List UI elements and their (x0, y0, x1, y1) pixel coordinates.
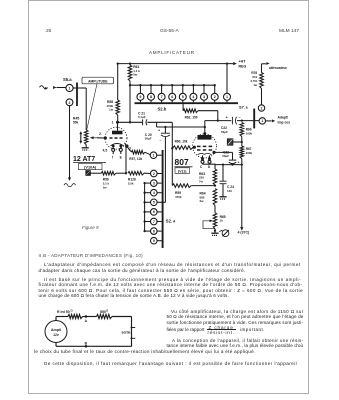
capacitor C22 (232, 117, 236, 125)
switch S5.a contact 1 (66, 84, 73, 91)
resistor R60 (173, 146, 196, 150)
right column line 4 with fraction (167, 327, 205, 332)
header ref (279, 29, 299, 34)
12AT7 grid pin 2 label (99, 132, 101, 136)
resistor R63 (213, 169, 217, 185)
R45 bottom lead (85, 145, 87, 148)
S7.a label (239, 105, 248, 110)
12AT7 plate (112, 121, 123, 135)
tube 807 envelope (193, 134, 217, 158)
potentiometer R65 (213, 213, 217, 229)
label 4 (37C) (238, 231, 250, 235)
fig10 node A (85, 315, 88, 323)
807 grid1 dashes (197, 145, 212, 147)
paragraph 2 line 1 (44, 277, 301, 282)
807 cathode pins (201, 155, 211, 164)
switch S5.a rotor bar (76, 83, 78, 107)
807 grid2 dashes (197, 149, 212, 151)
fig10 resistor Rint (68, 314, 83, 318)
wire pin3 down (125, 146, 127, 174)
shielded terminal box (227, 139, 233, 145)
attenuator arrow (262, 62, 270, 65)
resistor R66 label (246, 128, 253, 136)
arrow to modulator (68, 177, 71, 181)
right column line 5 (172, 338, 304, 343)
HT supply rail (117, 62, 234, 64)
capacitor C23 (229, 152, 236, 165)
fig10 wire gen top (56, 317, 68, 321)
resistor R66 (240, 123, 244, 137)
wire contact2 down (69, 106, 71, 178)
paragraph 1 line 1 (44, 262, 301, 267)
fig10 generator Ampli (45, 321, 67, 343)
resistor R67 (240, 146, 244, 159)
last line (44, 361, 297, 366)
resistor R61 (128, 64, 132, 87)
wire cathode to R63 (210, 164, 216, 169)
wire C22 to S7 (237, 119, 259, 121)
switch S5.a contact 2 (66, 99, 73, 106)
wire R61 node down to plate node (129, 85, 131, 123)
heater f label (112, 156, 114, 160)
switch S2.a contacts 2-9 (151, 170, 162, 244)
R45 wiper arrow (90, 136, 97, 139)
capacitor C24 (220, 181, 227, 196)
12AT7 cathode arc (111, 144, 124, 146)
schematic title (149, 50, 195, 55)
capacitor C24 label (227, 185, 234, 193)
wire to connector 37C (241, 165, 243, 228)
tube 12AT7 envelope (105, 127, 127, 149)
fig10 sortie label (122, 330, 131, 334)
resistor R76 label (251, 71, 258, 87)
resistor R59 label (175, 191, 182, 199)
capacitor C22 label (221, 126, 228, 134)
switch S2.a contact 1 (150, 152, 162, 159)
fig10 bottom wire (56, 343, 132, 347)
resistor R64 label (200, 192, 206, 204)
fig10 right side (131, 317, 133, 347)
R65 wiper loop (203, 220, 215, 229)
wire box to R66-R67 node (233, 141, 243, 143)
attenuator label (269, 66, 288, 70)
screwdriver adjust (219, 230, 229, 237)
switch S2.a rotor bar (161, 150, 163, 248)
wire node to C24 (222, 163, 224, 181)
capacitor C20 label (145, 133, 152, 141)
resistor R59 (172, 184, 216, 188)
paragraph 2 line 3 (39, 288, 304, 293)
resistor R60 label (175, 140, 188, 144)
wire C21 to grid node (147, 122, 173, 149)
12AT7 cathode-heater pins (112, 145, 123, 154)
section heading (39, 253, 143, 258)
resistor R56 (90, 171, 126, 175)
HT rail arrow (233, 62, 237, 65)
fig10 output ticks (131, 327, 136, 340)
fig10 Rint label (57, 309, 74, 314)
resistor R63 label (199, 172, 205, 184)
waveform symbol (64, 184, 76, 187)
capacitor C22 plus (226, 115, 228, 119)
fig10 resistor 550 (97, 314, 113, 318)
wire R67 bottom (241, 159, 243, 166)
fig10 node B (85, 341, 88, 347)
wire wiper to grid (97, 136, 107, 139)
right column line 2 (167, 314, 304, 319)
arrow 4 37C (240, 227, 243, 231)
wire grid node down (171, 148, 173, 185)
capacitor C23 plus (238, 160, 240, 164)
wire C20 to S2.a wiper (163, 137, 166, 202)
svg-text:Ω: Ω (71, 309, 74, 313)
switch S2.b wafer bar (135, 102, 239, 104)
fig10 550 label (100, 309, 109, 314)
807 pin D label (208, 165, 211, 169)
right column line 1 (171, 309, 304, 314)
807 designation (175, 157, 193, 167)
capacitor C20 (161, 127, 170, 137)
switch S5.a label (63, 77, 72, 82)
807 V11 box (175, 168, 190, 174)
paragraph 2 line 4 (39, 293, 229, 298)
switch S7.a contact 2 (258, 105, 264, 111)
resistor R62 (183, 104, 219, 122)
wire plate node to C21 (118, 121, 142, 123)
switch S2.b contact 1 (224, 64, 231, 103)
output arrow (265, 119, 275, 122)
+HT REG label (239, 60, 247, 69)
input signal arrow (40, 86, 66, 90)
resistor R64 (213, 189, 217, 213)
switch S2.b contacts 9-2 (137, 84, 218, 102)
svg-text:Ω: Ω (106, 309, 109, 313)
capacitor C20 plus (158, 128, 160, 132)
S2.a left tie line (143, 182, 150, 232)
header doc code (160, 29, 179, 34)
ground under C24 (219, 197, 226, 199)
ground under R45 (82, 148, 89, 150)
resistor R67 label (246, 147, 253, 155)
right column line 3 (167, 320, 304, 325)
resistor R126 (128, 171, 151, 175)
pins 4,5 label (103, 149, 108, 153)
paragraph 1 line 2 (39, 268, 246, 273)
resistor R76 (260, 64, 264, 89)
potentiometer R45 label (73, 117, 82, 144)
wire to 807 plate (157, 122, 206, 128)
svg-text:B: B (85, 341, 88, 345)
807 plate (198, 127, 212, 140)
leader line amplitude to R45 (87, 84, 97, 130)
807 beam arcs (198, 153, 212, 154)
svg-text:R int 50: R int 50 (57, 310, 70, 314)
capacitor C20 minus (160, 138, 162, 142)
resistor R58 label (107, 100, 114, 111)
fig10 wire top right (112, 316, 132, 318)
resistor R61 label (133, 65, 140, 77)
socket feed bus (130, 84, 215, 86)
ground under R65 (211, 233, 218, 235)
amplitude control box (82, 77, 114, 84)
svg-text:550: 550 (100, 310, 106, 314)
svg-text:A: A (85, 319, 88, 323)
S2.a label (166, 219, 176, 224)
switch S7.a rotor bar (253, 109, 255, 129)
resistor R56 label (103, 178, 110, 190)
potentiometer R45 (84, 130, 88, 145)
resistor R57 label (129, 157, 142, 161)
wire R66-R67 (241, 137, 243, 147)
heater E label (120, 156, 122, 160)
resistor R58 (116, 64, 120, 124)
figure 9 caption (82, 225, 99, 230)
resistor R57 (127, 146, 151, 155)
capacitor C22 minus (239, 115, 241, 119)
chassis terminal box (86, 171, 91, 176)
right column line 6 (167, 343, 304, 348)
output label (278, 115, 291, 124)
switch S7.a contact 1 (259, 118, 265, 124)
cathode bypass bus (215, 165, 242, 168)
svg-text:12v: 12v (53, 333, 59, 337)
fig10 wire A (83, 316, 97, 318)
S2.b label (158, 107, 167, 112)
capacitor C21 label (138, 112, 146, 120)
wire plate to C22 (205, 121, 232, 127)
R65 bottom node (214, 229, 216, 233)
12AT7 V10A box (79, 164, 103, 170)
resistor R126 label (128, 178, 136, 186)
wire contact1 to R45 (73, 88, 86, 130)
paragraph 2 line 2 (39, 282, 303, 287)
807 screen wire (212, 151, 232, 154)
resistor R65 label (220, 215, 226, 223)
12AT7 grid dashes (110, 137, 123, 139)
wire S7 contact2 up (261, 89, 263, 106)
header page number (46, 29, 51, 34)
resistor R62 label (185, 115, 198, 119)
node 1 label (112, 120, 114, 124)
svg-text:sortie: sortie (122, 330, 131, 334)
807 pin C label (200, 165, 203, 169)
capacitor C23 label (222, 150, 229, 158)
capacitor C21 (143, 119, 147, 125)
12AT7 designation (73, 156, 106, 163)
12AT7 pin 3 node (125, 143, 132, 150)
svg-text:Ampli: Ampli (51, 328, 61, 332)
full width line (34, 349, 256, 354)
